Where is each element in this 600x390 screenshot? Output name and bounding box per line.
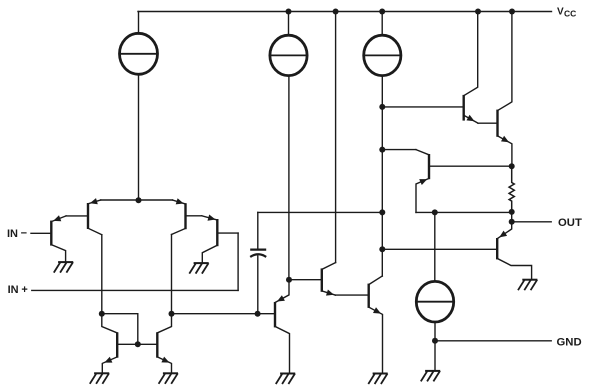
node I3-compensation cap tap xyxy=(379,209,385,215)
current source I4 xyxy=(416,281,453,322)
transistor Q2 (PNP input pair left) xyxy=(88,198,102,235)
svg-text:CC: CC xyxy=(564,9,576,19)
resistor R1 xyxy=(509,166,514,212)
transistor Q5 (NPN mirror left) xyxy=(102,314,117,374)
wire Q11 emitter to output node xyxy=(416,211,512,213)
wire Q11 base to resistor top xyxy=(429,165,512,167)
wire mirror bases xyxy=(117,343,157,345)
transistor Q4 (PNP input, IN+) xyxy=(202,215,218,264)
wire VCC rail xyxy=(138,11,552,13)
node GND tap xyxy=(432,338,438,344)
node VCC-rail junction at Q7 collector riser xyxy=(333,9,339,15)
transistor Q12 (PNP output) xyxy=(497,222,531,280)
wire mirror diode link horizontal xyxy=(102,313,138,315)
ground at Q12 collector xyxy=(518,280,537,291)
node B (Q7 base / Q6 emitter) xyxy=(286,277,292,283)
wire cap top to I3 bus xyxy=(258,211,383,213)
wire Q2 collector down to current mirror xyxy=(101,235,103,314)
transistor Q10 (NPN darlington 2) xyxy=(498,12,512,167)
wire Q1 emitter to Q2 base xyxy=(66,215,88,217)
node I3-Q11 collector tap xyxy=(379,147,385,153)
ground at Q6m emitter xyxy=(159,373,178,384)
ground at Q6 collector xyxy=(276,374,295,385)
svg-text:V: V xyxy=(557,7,564,18)
wire node B to Q7 base xyxy=(289,279,322,281)
wire I1 top stub xyxy=(138,12,140,35)
wire Q3 base to Q4 emitter xyxy=(186,215,202,217)
wire cap bottom lead xyxy=(257,256,259,314)
current source I2 xyxy=(270,35,307,75)
wire Q4 base to IN+ riser xyxy=(217,232,238,234)
node resistor bottom xyxy=(509,209,515,215)
transistor Q6m (NPN mirror right) xyxy=(157,314,171,374)
current source I3 xyxy=(364,35,401,75)
wire I3 tap to Q9 base xyxy=(382,106,463,108)
wire Q12 base to I3 tap xyxy=(382,248,497,250)
transistor Q8 (NPN) xyxy=(369,276,383,374)
wire resistor bottom to OUT tap xyxy=(511,212,513,222)
wire I4 to GND node xyxy=(434,322,436,341)
transistor Q11 (PNP current limit) xyxy=(416,150,429,213)
node I3-Q12 base tap xyxy=(379,246,385,252)
wire Q7 collector riser to VCC xyxy=(335,12,337,263)
node mirror right (Q3 collector / Q6 collector) xyxy=(169,311,175,317)
svg-text:IN: IN xyxy=(8,284,19,296)
svg-text:GND: GND xyxy=(557,336,582,348)
svg-text:OUT: OUT xyxy=(558,217,582,229)
current source I1 xyxy=(120,33,158,74)
node I4 top tap xyxy=(432,209,438,215)
label GND xyxy=(557,336,582,348)
label OUT xyxy=(558,217,582,229)
wire I1 output to input-pair node A xyxy=(138,74,140,200)
label VCC xyxy=(557,7,576,19)
transistor Q9 (NPN darlington 1) xyxy=(464,12,478,124)
wire I3 tap to Q11 collector xyxy=(382,149,416,151)
transistor Q1 (PNP input, IN-) xyxy=(51,215,66,262)
ground at Q8 emitter xyxy=(368,374,387,385)
node resistor top / Q10 emitter xyxy=(509,163,515,169)
node I3-Q9 base tap xyxy=(379,104,385,110)
ground at Q5 emitter xyxy=(90,373,109,384)
label IN- xyxy=(7,228,27,241)
wire I3 output bus down to Q8 collector xyxy=(381,76,383,276)
wire Q2 emitter to node A xyxy=(101,199,139,201)
wire Q9 emitter to Q10 base xyxy=(478,122,498,124)
wire GND xyxy=(435,340,551,342)
node compensation cap bottom tap xyxy=(255,311,261,317)
wire I4 ground stub xyxy=(434,341,436,371)
transistor Q6 (PNP, base from mirror) xyxy=(275,280,290,374)
svg-text:−: − xyxy=(21,228,27,240)
wire output node to I4 xyxy=(434,212,436,281)
node mirror left (Q2 collector / Q5 collector) xyxy=(99,311,105,317)
transistor Q3 (PNP input pair right) xyxy=(172,198,186,234)
wire mirror diode link vertical xyxy=(137,314,139,345)
wire I3 top stub xyxy=(381,12,383,36)
node A (input pair emitters) xyxy=(136,197,142,203)
node VCC-rail junction at I3 xyxy=(379,9,385,15)
wire cap top lead xyxy=(257,212,259,248)
wire I2 output to node B xyxy=(288,76,290,280)
svg-text:IN: IN xyxy=(7,228,18,240)
ground at Q4 collector xyxy=(189,263,208,274)
svg-text:+: + xyxy=(21,284,27,296)
wire mirror output to Q6 base xyxy=(172,313,276,315)
wire Q3 collector down to current mirror xyxy=(171,235,173,314)
ground at I4 xyxy=(421,371,440,382)
capacitor C1 xyxy=(250,250,266,257)
ground at Q1 collector xyxy=(54,262,73,273)
node VCC-rail junction at Q10 collector xyxy=(509,9,515,15)
wire OUT xyxy=(512,221,552,223)
transistor Q7 (NPN gain stage) xyxy=(322,263,336,296)
node VCC-rail junction at Q9 collector xyxy=(475,9,481,15)
wire IN+ riser to Q4 base xyxy=(237,233,239,290)
node mirror base tie xyxy=(135,341,141,347)
wire node A to Q3 emitter xyxy=(139,199,173,201)
node OUT tap xyxy=(509,219,515,225)
wire IN+ xyxy=(32,289,238,291)
node VCC-rail junction at I2 xyxy=(286,9,292,15)
wire I2 top stub xyxy=(288,12,290,36)
wire IN- to Q1 base xyxy=(31,232,51,234)
label IN+ xyxy=(8,284,28,296)
wire Q7 emitter to Q8 base xyxy=(335,294,368,296)
